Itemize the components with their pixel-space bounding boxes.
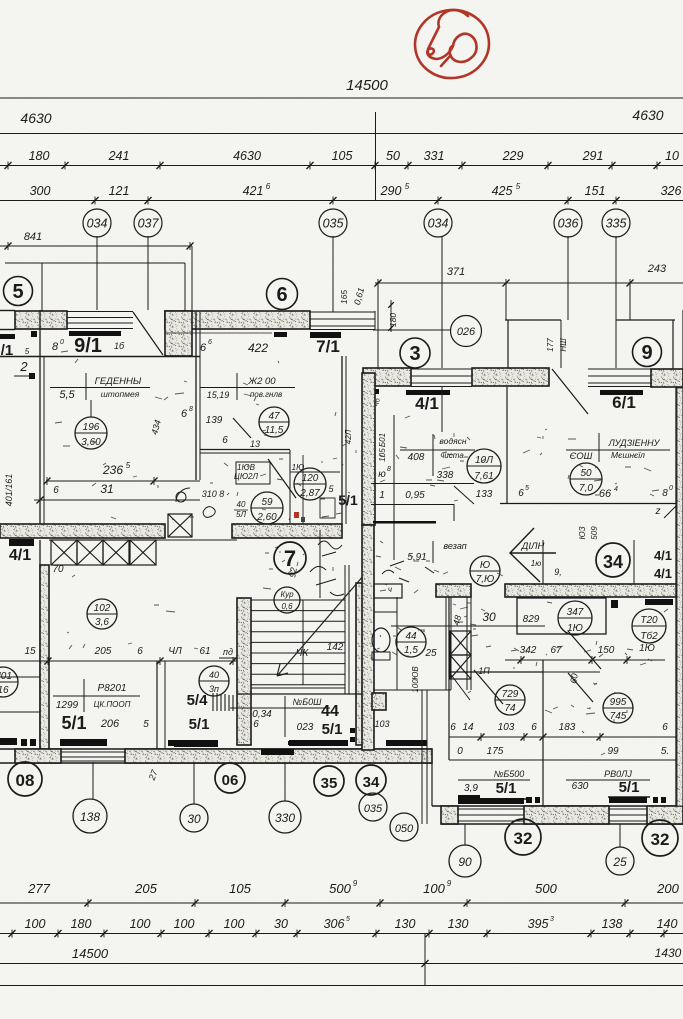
table LUDZIENNU xyxy=(598,433,600,462)
svg-text:335: 335 xyxy=(606,217,627,231)
partition x40 lower xyxy=(39,540,41,750)
dimension line row1 xyxy=(0,165,683,167)
svg-text:0: 0 xyxy=(669,485,673,492)
svg-text:100: 100 xyxy=(174,917,195,931)
axis circle 034 xyxy=(83,209,111,237)
svg-text:15: 15 xyxy=(24,646,36,657)
svg-text:050: 050 xyxy=(395,823,414,835)
svg-text:277: 277 xyxy=(27,881,50,896)
svg-text:140: 140 xyxy=(657,917,678,931)
svg-text:25: 25 xyxy=(424,648,437,659)
svg-text:5/1: 5/1 xyxy=(496,780,517,797)
svg-text:Ж2 00: Ж2 00 xyxy=(247,376,276,387)
svg-text:пов.гнлв: пов.гнлв xyxy=(250,390,282,399)
svg-text:100: 100 xyxy=(130,917,151,931)
svg-text:745: 745 xyxy=(610,711,627,722)
svg-text:7,0: 7,0 xyxy=(579,483,593,494)
svg-text:4630: 4630 xyxy=(20,110,51,126)
svg-text:026: 026 xyxy=(457,326,476,338)
svg-text:3,9: 3,9 xyxy=(464,783,478,794)
svg-text:183: 183 xyxy=(559,722,576,733)
svg-text:42Л: 42Л xyxy=(344,429,353,444)
circle 050 xyxy=(390,813,418,841)
offset line xyxy=(5,262,185,264)
sill br a xyxy=(458,798,524,804)
svg-text:8: 8 xyxy=(189,406,193,413)
dim line bottom right xyxy=(449,736,683,738)
svg-text:142: 142 xyxy=(327,642,344,653)
svg-text:243: 243 xyxy=(647,263,667,275)
svg-text:59: 59 xyxy=(261,497,273,508)
axis circle 6 xyxy=(267,279,298,310)
room circle 196/3.60 xyxy=(75,417,107,449)
stair left wall hatched xyxy=(237,598,251,745)
svg-text:5/1: 5/1 xyxy=(61,713,86,733)
svg-text:5Л: 5Л xyxy=(236,510,246,519)
svg-text:2,60: 2,60 xyxy=(256,512,277,523)
sill bar room 4/1 xyxy=(406,390,450,395)
svg-text:6: 6 xyxy=(208,339,212,346)
svg-text:326: 326 xyxy=(661,184,682,198)
svg-text:103: 103 xyxy=(498,722,515,733)
room box right xyxy=(517,598,606,634)
svg-text:4630: 4630 xyxy=(632,107,663,123)
door diagonal 2 xyxy=(268,459,296,498)
svg-text:7/1: 7/1 xyxy=(316,337,340,356)
svg-text:421: 421 xyxy=(243,184,264,198)
wc partition xyxy=(396,597,398,690)
svg-text:165: 165 xyxy=(339,290,349,304)
circle 32 xyxy=(505,819,541,855)
exterior wall top-right band xyxy=(363,368,411,386)
svg-text:6: 6 xyxy=(181,408,188,420)
svg-text:0: 0 xyxy=(60,339,64,346)
room circle 729 xyxy=(495,685,525,715)
svg-text:236: 236 xyxy=(102,463,123,477)
sill bar room 6/1 xyxy=(600,390,643,395)
sill bar 4/1 lower xyxy=(9,539,34,546)
svg-text:14500: 14500 xyxy=(346,77,388,94)
handwriting clutter strokes xyxy=(55,351,668,755)
svg-text:66: 66 xyxy=(599,488,612,500)
svg-text:338: 338 xyxy=(437,470,454,481)
exterior wall top-left hatched xyxy=(0,310,15,312)
top border line xyxy=(0,97,683,99)
svg-text:105: 105 xyxy=(229,881,251,896)
mid hatched wall band xyxy=(0,524,165,538)
sill bottom a xyxy=(168,740,212,746)
svg-text:31: 31 xyxy=(100,482,113,496)
svg-text:3: 3 xyxy=(409,343,420,365)
svg-text:8: 8 xyxy=(387,466,391,473)
partition x394 xyxy=(393,415,395,560)
door opening diagonal xyxy=(133,312,163,355)
svg-text:3п: 3п xyxy=(209,684,219,694)
svg-text:8: 8 xyxy=(662,488,668,499)
svg-text:РВ0ЛJ: РВ0ЛJ xyxy=(604,769,632,779)
door diag bottom rooms b xyxy=(568,673,593,702)
sill bar lower2 xyxy=(174,740,218,747)
partition 5/1-5/4 xyxy=(156,661,158,749)
svg-text:1: 1 xyxy=(379,490,385,501)
bottom exterior wall right xyxy=(432,805,683,807)
svg-text:25: 25 xyxy=(612,855,627,869)
svg-text:9: 9 xyxy=(353,879,358,888)
svg-text:729: 729 xyxy=(502,689,519,700)
second line xyxy=(0,133,683,135)
red inspector mark circled 20 xyxy=(411,6,493,83)
loggia outline top right xyxy=(505,319,561,321)
door diag bottom1 xyxy=(449,672,470,700)
svg-text:61: 61 xyxy=(199,646,210,657)
svg-text:130: 130 xyxy=(395,917,416,931)
bar right xyxy=(645,599,673,605)
axis circle 036 xyxy=(554,209,582,237)
svg-text:Тб2: Тб2 xyxy=(640,630,658,642)
svg-text:НШ: НШ xyxy=(559,338,568,352)
circle 138 xyxy=(73,799,107,833)
svg-text:Р8201: Р8201 xyxy=(98,683,127,694)
shaft xbox mid xyxy=(168,514,192,537)
svg-text:2,87: 2,87 xyxy=(299,488,320,499)
svg-text:40: 40 xyxy=(209,670,219,680)
right exterior wall line xyxy=(675,387,677,806)
svg-text:105: 105 xyxy=(332,149,353,163)
svg-text:6: 6 xyxy=(253,719,259,730)
svg-text:ЛУДЗІЕННУ: ЛУДЗІЕННУ xyxy=(608,438,661,448)
corridor wall right hatched xyxy=(505,584,683,597)
svg-text:34: 34 xyxy=(363,774,380,791)
svg-text:99: 99 xyxy=(607,746,619,757)
svg-text:151: 151 xyxy=(585,184,606,198)
red dots xyxy=(294,512,299,518)
svg-text:ДІЛН: ДІЛН xyxy=(521,541,545,552)
svg-text:034: 034 xyxy=(87,217,108,231)
svg-text:1П: 1П xyxy=(478,666,490,676)
svg-text:30: 30 xyxy=(187,812,201,826)
dim line mid lower xyxy=(0,660,240,662)
bottom dim line B xyxy=(0,933,683,935)
svg-text:ю: ю xyxy=(378,469,386,480)
svg-text:5/4: 5/4 xyxy=(187,692,209,709)
axis leader 036 xyxy=(567,236,569,320)
svg-text:9/1: 9/1 xyxy=(74,335,102,357)
svg-text:6: 6 xyxy=(518,488,524,499)
svg-text:1Ю: 1Ю xyxy=(639,643,655,654)
svg-text:Мєшнєїл: Мєшнєїл xyxy=(611,450,645,460)
stair right wall hatched xyxy=(356,583,370,745)
svg-text:Ю: Ю xyxy=(480,560,490,571)
center column hatched xyxy=(362,373,375,525)
svg-text:331: 331 xyxy=(424,149,445,163)
svg-text:5: 5 xyxy=(516,182,521,191)
svg-text:206: 206 xyxy=(100,718,120,730)
kitchen table A xyxy=(432,434,434,476)
svg-text:16: 16 xyxy=(0,685,9,696)
bottom line C xyxy=(0,963,683,965)
door diag wc xyxy=(454,486,474,504)
svg-text:4/1: 4/1 xyxy=(415,394,439,413)
sill bar room 9/1 xyxy=(69,331,121,336)
svg-text:6: 6 xyxy=(662,722,668,733)
svg-text:200: 200 xyxy=(656,881,679,896)
svg-text:5/1: 5/1 xyxy=(189,716,210,733)
svg-text:5: 5 xyxy=(25,347,30,356)
room table GEDENNY xyxy=(85,373,87,400)
svg-text:102: 102 xyxy=(94,603,111,614)
svg-text:120: 120 xyxy=(302,473,319,484)
svg-text:везап: везап xyxy=(443,541,466,551)
wc room xyxy=(372,628,390,652)
door diagonal top right xyxy=(552,369,588,414)
svg-text:500: 500 xyxy=(535,881,557,896)
svg-text:ЧЛ: ЧЛ xyxy=(168,646,182,657)
svg-text:422: 422 xyxy=(248,341,268,355)
svg-text:138: 138 xyxy=(602,917,623,931)
room circle 47/11.5 xyxy=(259,407,289,437)
partition x342 xyxy=(341,356,343,524)
stair treads xyxy=(251,599,345,601)
wall dots xyxy=(31,331,37,337)
sill bottom b xyxy=(289,740,348,746)
svg-text:Кур: Кур xyxy=(280,590,294,599)
circle 30 xyxy=(180,804,208,832)
svg-text:1ЮВ: 1ЮВ xyxy=(237,463,256,472)
svg-text:7,Ю: 7,Ю xyxy=(476,574,495,585)
entry wall column xyxy=(165,311,192,356)
circle 035 xyxy=(359,793,387,821)
svg-text:32: 32 xyxy=(514,829,533,848)
door diag bottom rooms a xyxy=(474,670,503,704)
sill bar lower1 xyxy=(60,739,107,746)
svg-text:133: 133 xyxy=(476,489,493,500)
svg-text:1299: 1299 xyxy=(56,700,79,711)
sill bar far left xyxy=(0,334,15,339)
svg-text:023: 023 xyxy=(297,722,314,733)
svg-text:47: 47 xyxy=(268,411,280,422)
svg-text:291: 291 xyxy=(582,149,604,163)
svg-text:0,95: 0,95 xyxy=(405,490,425,501)
svg-text:35: 35 xyxy=(321,775,338,792)
hatched column left lower xyxy=(40,565,49,750)
svg-text:14: 14 xyxy=(462,722,474,733)
svg-text:7: 7 xyxy=(284,546,296,571)
circle 32b xyxy=(642,820,678,856)
svg-text:4/1: 4/1 xyxy=(654,566,672,581)
room circle U xyxy=(470,556,500,586)
svg-text:995: 995 xyxy=(610,697,627,708)
svg-text:330: 330 xyxy=(275,811,295,825)
bottom dim line A xyxy=(0,902,683,904)
room circle 50/7.0 xyxy=(570,463,602,495)
svg-text:4630: 4630 xyxy=(233,149,261,163)
stair right inner xyxy=(344,565,346,694)
svg-text:50: 50 xyxy=(386,149,400,163)
svg-text:32: 32 xyxy=(651,830,670,849)
circle 25 xyxy=(606,847,634,875)
svg-text:ч: ч xyxy=(388,585,392,594)
axis line through 4/1 xyxy=(441,387,443,432)
sill blob 7/1 xyxy=(274,332,287,337)
svg-text:№Б0Ш: №Б0Ш xyxy=(293,697,323,707)
svg-text:037: 037 xyxy=(138,217,160,231)
svg-text:штопмея: штопмея xyxy=(101,389,140,399)
svg-text:342: 342 xyxy=(520,645,537,656)
axis leader 335 xyxy=(615,236,617,320)
room circle Kur xyxy=(274,587,300,613)
svg-text:401/161: 401/161 xyxy=(4,474,14,507)
svg-text:300: 300 xyxy=(30,184,51,198)
svg-text:11,5: 11,5 xyxy=(265,425,284,436)
bottom line D xyxy=(0,985,683,987)
svg-text:ЧК: ЧК xyxy=(296,648,310,659)
svg-text:34: 34 xyxy=(603,552,623,572)
svg-text:180: 180 xyxy=(29,149,50,163)
room circle 10L xyxy=(467,449,501,483)
svg-text:180: 180 xyxy=(71,917,92,931)
stair bottom table xyxy=(230,707,330,709)
tables 5/1 bottom right xyxy=(458,779,530,781)
svg-text:10: 10 xyxy=(665,149,679,163)
thin bar xyxy=(373,521,436,524)
svg-text:6: 6 xyxy=(266,182,271,191)
svg-text:3: 3 xyxy=(550,916,554,923)
axis circle 037 xyxy=(134,209,162,237)
svg-text:139: 139 xyxy=(206,415,223,426)
svg-text:1ю: 1ю xyxy=(531,559,541,568)
room circle 44 xyxy=(396,627,426,657)
circle 34b xyxy=(356,765,386,795)
svg-text:ГЕДЕННЫ: ГЕДЕННЫ xyxy=(95,376,142,387)
room circle T20 xyxy=(632,609,666,643)
svg-text:5,5: 5,5 xyxy=(59,389,75,401)
svg-text:100: 100 xyxy=(25,917,46,931)
partition bottom right xyxy=(542,660,544,806)
svg-text:180: 180 xyxy=(388,313,398,327)
svg-text:44: 44 xyxy=(321,703,339,720)
svg-text:пд: пд xyxy=(223,647,233,657)
svg-text:6: 6 xyxy=(137,646,143,657)
svg-text:6: 6 xyxy=(53,485,59,496)
axis circle 9 xyxy=(633,338,662,367)
stair stringer xyxy=(302,600,304,685)
svg-text:100: 100 xyxy=(411,679,420,693)
circle 06 xyxy=(215,763,245,793)
svg-text:347: 347 xyxy=(567,607,584,618)
svg-text:5: 5 xyxy=(405,182,410,191)
duct pier hatched xyxy=(436,584,471,597)
wardrobe boxes xyxy=(51,540,77,565)
svg-text:6: 6 xyxy=(200,342,207,354)
svg-text:034: 034 xyxy=(428,217,449,231)
room circle 347 xyxy=(558,601,592,635)
svg-text:9: 9 xyxy=(641,342,652,364)
svg-text:z: z xyxy=(655,506,661,517)
wall y503 right xyxy=(500,503,683,505)
svg-text:5: 5 xyxy=(12,281,23,303)
stair top landing line xyxy=(49,539,237,541)
svg-text:241: 241 xyxy=(108,149,130,163)
svg-text:138: 138 xyxy=(80,810,100,824)
svg-text:310 8: 310 8 xyxy=(202,489,225,499)
svg-text:30: 30 xyxy=(274,917,288,931)
stair top squiggles xyxy=(310,541,344,596)
svg-text:196: 196 xyxy=(83,422,100,433)
svg-text:7,61: 7,61 xyxy=(474,471,493,482)
svg-text:205: 205 xyxy=(134,881,157,896)
step corner xyxy=(431,763,433,806)
svg-text:9: 9 xyxy=(447,879,452,888)
small shaft xyxy=(372,693,386,710)
svg-text:3,6: 3,6 xyxy=(95,617,109,628)
svg-text:водясн: водясн xyxy=(439,436,466,446)
svg-text:425: 425 xyxy=(492,184,513,198)
room circle 40/3p xyxy=(199,666,229,696)
svg-text:Б01: Б01 xyxy=(378,433,387,447)
svg-text:395: 395 xyxy=(528,917,549,931)
sill bottom c xyxy=(386,740,427,746)
leader to 026 xyxy=(373,329,450,331)
door diag right xyxy=(568,631,601,669)
svg-text:5/1: 5/1 xyxy=(338,492,358,508)
axis circle 3 xyxy=(400,338,430,368)
svg-text:103: 103 xyxy=(374,719,389,729)
dim line right rooms xyxy=(505,659,665,661)
svg-text:5: 5 xyxy=(525,485,529,492)
svg-text:4: 4 xyxy=(614,486,618,493)
duct xbox1 xyxy=(450,631,471,655)
door swing small xyxy=(176,488,190,502)
window triple lines xyxy=(67,311,133,313)
dot right xyxy=(611,600,618,608)
svg-text:630: 630 xyxy=(572,781,589,792)
svg-text:4/1: 4/1 xyxy=(9,547,31,564)
circle 026 xyxy=(451,316,482,347)
svg-text:205: 205 xyxy=(94,646,112,657)
svg-text:30: 30 xyxy=(482,610,496,624)
room table kitchen xyxy=(236,373,238,400)
svg-text:ЄОШ: ЄОШ xyxy=(570,451,593,462)
stair sill bar xyxy=(288,741,341,745)
dim line right xyxy=(375,282,683,284)
svg-text:ЦК.ПООП: ЦК.ПООП xyxy=(94,700,131,709)
line under 841 xyxy=(0,245,192,247)
svg-text:Т20: Т20 xyxy=(640,615,658,626)
sill bar 7/1 xyxy=(310,332,341,338)
svg-text:509: 509 xyxy=(590,526,599,540)
svg-text:177: 177 xyxy=(546,338,555,352)
svg-text:6: 6 xyxy=(276,284,287,306)
entry arrow xyxy=(510,528,556,582)
svg-text:№Б500: №Б500 xyxy=(494,769,525,779)
svg-text:14500: 14500 xyxy=(72,946,109,961)
svg-text:035: 035 xyxy=(323,217,344,231)
partition x196 xyxy=(195,312,197,480)
duct lines xyxy=(445,597,447,690)
svg-text:100: 100 xyxy=(423,881,445,896)
circle 35 xyxy=(314,766,344,796)
stair arrow xyxy=(277,568,370,676)
svg-text:5: 5 xyxy=(346,916,350,923)
partition x449 xyxy=(448,597,450,760)
circle 08 xyxy=(8,762,42,796)
axis circle 335 xyxy=(602,209,630,237)
interior wall under 9/1 xyxy=(0,356,200,358)
svg-text:ЦЮ2Л: ЦЮ2Л xyxy=(234,472,258,481)
svg-text:9,: 9, xyxy=(554,567,562,577)
svg-text:0: 0 xyxy=(457,746,463,757)
corridor wall a xyxy=(421,690,423,763)
